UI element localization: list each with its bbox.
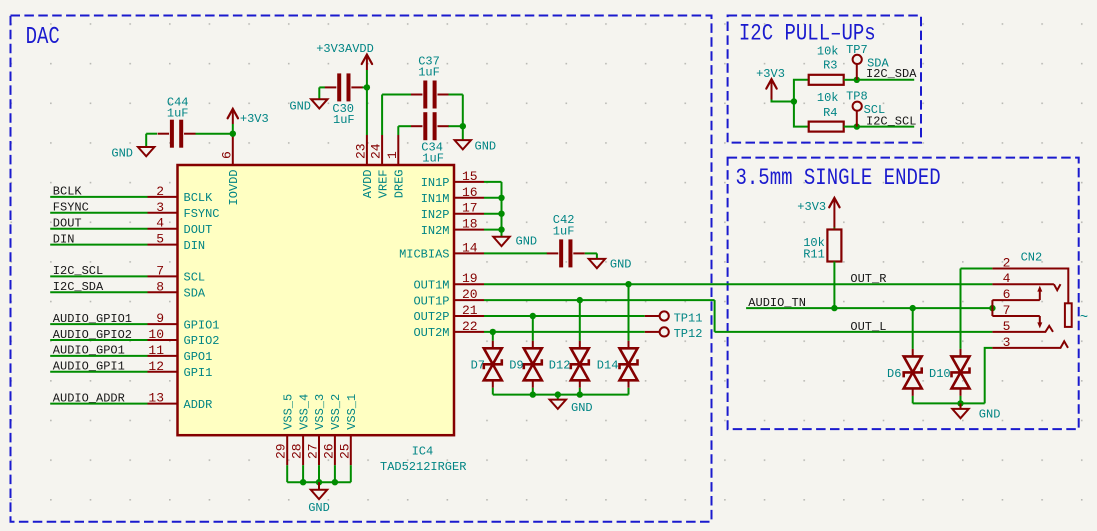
svg-text:VSS_3: VSS_3 xyxy=(313,394,327,430)
svg-text:MICBIAS: MICBIAS xyxy=(399,248,449,262)
svg-text:13: 13 xyxy=(148,391,164,406)
svg-text:TP7: TP7 xyxy=(846,43,868,57)
svg-text:4: 4 xyxy=(156,216,164,231)
svg-text:D7: D7 xyxy=(471,359,485,373)
svg-text:1uF: 1uF xyxy=(422,151,444,165)
svg-text:22: 22 xyxy=(462,319,478,334)
svg-text:BCLK: BCLK xyxy=(53,185,83,199)
svg-text:GND: GND xyxy=(610,257,632,271)
svg-text:DOUT: DOUT xyxy=(184,223,213,237)
svg-text:GND: GND xyxy=(475,140,497,154)
svg-text:+3V3: +3V3 xyxy=(797,200,826,214)
svg-text:6: 6 xyxy=(1003,287,1011,302)
svg-text:GND: GND xyxy=(308,501,330,515)
svg-text:14: 14 xyxy=(462,240,478,255)
svg-text:I2C_SCL: I2C_SCL xyxy=(866,114,916,128)
svg-text:OUT1M: OUT1M xyxy=(413,278,449,292)
svg-text:D6: D6 xyxy=(887,367,901,381)
svg-text:GPI1: GPI1 xyxy=(184,366,213,380)
svg-text:17: 17 xyxy=(462,201,478,216)
svg-text:D9: D9 xyxy=(509,359,523,373)
svg-text:3: 3 xyxy=(156,200,164,215)
svg-text:I2C_SDA: I2C_SDA xyxy=(866,67,917,81)
svg-text:FSYNC: FSYNC xyxy=(53,201,89,215)
svg-text:18: 18 xyxy=(462,217,478,232)
svg-text:IN1P: IN1P xyxy=(421,176,450,190)
svg-text:D14: D14 xyxy=(597,359,619,373)
svg-text:10k: 10k xyxy=(817,91,839,105)
svg-text:TAD5212IRGER: TAD5212IRGER xyxy=(380,460,466,474)
svg-text:TP8: TP8 xyxy=(846,89,868,103)
svg-text:8: 8 xyxy=(156,279,164,294)
svg-text:DREG: DREG xyxy=(393,169,407,198)
svg-text:1uF: 1uF xyxy=(553,224,575,238)
svg-text:IN2M: IN2M xyxy=(421,224,450,238)
svg-text:~: ~ xyxy=(1080,310,1088,326)
svg-text:AUDIO_GPI1: AUDIO_GPI1 xyxy=(53,360,125,374)
svg-text:TP11: TP11 xyxy=(674,311,703,325)
svg-text:CN2: CN2 xyxy=(1021,250,1043,264)
svg-text:D12: D12 xyxy=(549,359,571,373)
svg-text:OUT_L: OUT_L xyxy=(850,320,886,334)
svg-text:27: 27 xyxy=(306,443,321,459)
svg-text:AVDD: AVDD xyxy=(361,169,375,198)
svg-text:AUDIO_GPIO1: AUDIO_GPIO1 xyxy=(53,312,132,326)
svg-text:19: 19 xyxy=(462,271,478,286)
svg-text:OUT2M: OUT2M xyxy=(413,326,449,340)
svg-text:7: 7 xyxy=(1003,303,1011,318)
svg-text:GND: GND xyxy=(516,235,538,249)
svg-text:+3V3AVDD: +3V3AVDD xyxy=(316,42,374,56)
svg-text:GND: GND xyxy=(571,401,593,415)
svg-text:VSS_4: VSS_4 xyxy=(297,394,311,430)
svg-text:SDA: SDA xyxy=(184,287,206,301)
svg-text:IOVDD: IOVDD xyxy=(227,169,241,205)
svg-text:28: 28 xyxy=(290,443,305,459)
svg-text:6: 6 xyxy=(219,151,234,159)
svg-text:21: 21 xyxy=(462,303,478,318)
svg-text:VREF: VREF xyxy=(376,169,390,198)
svg-text:10k: 10k xyxy=(817,45,839,59)
svg-text:R4: R4 xyxy=(823,106,837,120)
svg-text:7: 7 xyxy=(156,263,164,278)
svg-text:R11: R11 xyxy=(803,247,825,261)
svg-text:1: 1 xyxy=(385,151,400,159)
svg-text:SCL: SCL xyxy=(184,271,206,285)
svg-text:4: 4 xyxy=(1003,271,1011,286)
svg-text:ADDR: ADDR xyxy=(184,398,213,412)
svg-text:VSS_2: VSS_2 xyxy=(329,394,343,430)
svg-text:IN1M: IN1M xyxy=(421,192,450,206)
svg-text:1uF: 1uF xyxy=(333,113,355,127)
svg-text:26: 26 xyxy=(321,443,336,459)
svg-text:I2C_SCL: I2C_SCL xyxy=(53,264,103,278)
svg-text:29: 29 xyxy=(274,443,289,459)
svg-text:DIN: DIN xyxy=(53,232,75,246)
svg-text:DOUT: DOUT xyxy=(53,217,82,231)
svg-text:9: 9 xyxy=(156,311,164,326)
svg-text:1uF: 1uF xyxy=(167,107,189,121)
svg-text:GND: GND xyxy=(979,408,1001,422)
svg-text:IC4: IC4 xyxy=(412,444,434,458)
svg-text:OUT2P: OUT2P xyxy=(413,310,449,324)
svg-text:25: 25 xyxy=(337,443,352,459)
svg-text:GPIO1: GPIO1 xyxy=(184,318,220,332)
svg-text:GPIO2: GPIO2 xyxy=(184,334,220,348)
svg-text:10: 10 xyxy=(148,327,164,342)
svg-text:AUDIO_GPIO2: AUDIO_GPIO2 xyxy=(53,328,132,342)
svg-text:DAC: DAC xyxy=(26,24,60,51)
svg-text:3.5mm SINGLE ENDED: 3.5mm SINGLE ENDED xyxy=(736,165,941,191)
svg-text:FSYNC: FSYNC xyxy=(184,207,220,221)
svg-text:3: 3 xyxy=(1003,335,1011,350)
svg-text:2: 2 xyxy=(156,184,164,199)
svg-text:R3: R3 xyxy=(823,58,837,72)
svg-text:D10: D10 xyxy=(929,367,951,381)
svg-text:GND: GND xyxy=(289,100,311,114)
svg-text:GND: GND xyxy=(111,147,133,161)
svg-text:12: 12 xyxy=(148,359,164,374)
svg-text:DIN: DIN xyxy=(184,239,206,253)
svg-text:GPO1: GPO1 xyxy=(184,350,213,364)
svg-text:15: 15 xyxy=(462,169,478,184)
svg-text:OUT1P: OUT1P xyxy=(413,294,449,308)
svg-text:AUDIO_ADDR: AUDIO_ADDR xyxy=(53,391,125,405)
svg-text:20: 20 xyxy=(462,287,478,302)
svg-text:VSS_1: VSS_1 xyxy=(345,394,359,430)
svg-text:BCLK: BCLK xyxy=(184,191,214,205)
svg-text:16: 16 xyxy=(462,185,478,200)
svg-text:I2C_SDA: I2C_SDA xyxy=(53,280,104,294)
svg-text:1uF: 1uF xyxy=(418,66,440,80)
svg-text:24: 24 xyxy=(369,143,384,159)
svg-text:2: 2 xyxy=(1003,256,1011,271)
svg-text:23: 23 xyxy=(353,143,368,159)
svg-text:TP12: TP12 xyxy=(674,327,703,341)
svg-text:AUDIO_TN: AUDIO_TN xyxy=(748,296,806,310)
svg-text:AUDIO_GPO1: AUDIO_GPO1 xyxy=(53,344,125,358)
svg-text:OUT_R: OUT_R xyxy=(850,272,886,286)
svg-text:5: 5 xyxy=(1003,319,1011,334)
svg-text:IN2P: IN2P xyxy=(421,208,450,222)
svg-text:5: 5 xyxy=(156,232,164,247)
svg-text:+3V3: +3V3 xyxy=(240,112,269,126)
svg-text:VSS_5: VSS_5 xyxy=(281,394,295,430)
svg-text:11: 11 xyxy=(148,343,164,358)
